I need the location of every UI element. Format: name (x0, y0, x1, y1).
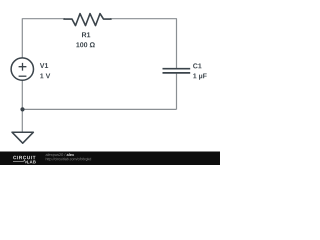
CircuitLab logo resistor motif (13, 160, 28, 163)
watermark url line 2 (46, 158, 91, 161)
wire: V1 top terminal up and right to resistor R1 left lead (22, 19, 65, 58)
label C1 (193, 63, 201, 68)
CircuitLab logo wordmark CIRCUIT (13, 156, 35, 159)
watermark user name bold (67, 153, 74, 156)
watermark user text line 1 (46, 153, 66, 157)
value 1 µF (193, 73, 206, 79)
ground (12, 132, 33, 143)
CircuitLab logo wordmark LAB (27, 161, 36, 164)
voltage source V1 (11, 58, 33, 80)
value 100 Ω (76, 42, 95, 47)
wire: capacitor C1 bottom lead down to bottom rail (176, 74, 178, 110)
value 1 V (40, 73, 50, 78)
wire: V1 negative terminal down through node A to ground (21, 80, 23, 132)
label R1 (82, 32, 90, 37)
capacitor C1 (163, 69, 191, 73)
watermark bar (0, 152, 220, 166)
node A junction dot (20, 107, 24, 111)
resistor R1 (64, 14, 111, 26)
label V1 (40, 63, 48, 68)
wire: resistor R1 right lead to top-right corner down to capacitor C1 (110, 19, 177, 68)
wire: bottom rail from node A to capacitor branch (23, 108, 177, 110)
